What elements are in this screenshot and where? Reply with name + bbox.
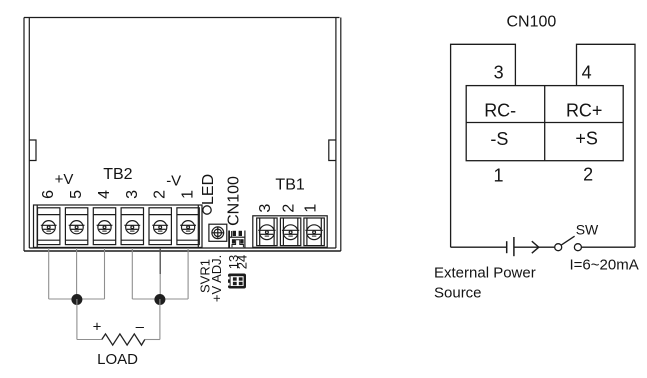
wire + drop to load	[76, 299, 78, 340]
svg-text:I=6~20mA: I=6~20mA	[570, 256, 639, 273]
wire from TB2 terminal 6	[48, 234, 50, 300]
terminal block TB1 body	[253, 216, 327, 248]
svg-text:-S: -S	[490, 129, 508, 149]
svg-text:TB2: TB2	[103, 166, 132, 183]
wire from TB2 terminal 2	[159, 234, 161, 300]
svg-text:RC+: RC+	[566, 100, 603, 120]
wire - drop to load	[159, 299, 161, 340]
svg-text:LED: LED	[200, 174, 217, 205]
svg-text:4: 4	[96, 190, 113, 199]
resistor LOAD	[102, 334, 145, 345]
svg-text:TB1: TB1	[275, 177, 304, 194]
svg-text:LOAD: LOAD	[97, 351, 138, 368]
connector CN100 side view	[229, 231, 245, 249]
right mounting tab	[329, 140, 336, 161]
svg-text:External Power: External Power	[434, 264, 536, 281]
svg-text:6: 6	[40, 190, 57, 199]
svg-text:+S: +S	[575, 128, 598, 148]
svg-text:5: 5	[68, 190, 85, 199]
svg-text:24: 24	[235, 255, 250, 269]
TB2 terminal 6 cell	[38, 208, 60, 245]
potentiometer SVR1	[209, 224, 227, 241]
LED indicator circle	[203, 206, 211, 214]
terminal block TB2 body	[34, 205, 203, 247]
external power source label	[434, 264, 536, 301]
wire battery to switch	[514, 246, 555, 248]
+V bus wire joining terminals 6,5,4	[49, 298, 105, 300]
svg-text:3: 3	[494, 62, 504, 82]
svg-text:RC-: RC-	[484, 100, 516, 120]
svg-text:CN100: CN100	[506, 13, 556, 30]
TB2 terminal 4 cell	[93, 208, 115, 245]
svg-text:+V ADJ.: +V ADJ.	[209, 255, 224, 302]
svg-text:3: 3	[257, 204, 274, 213]
TB2 terminal 3 cell	[121, 208, 143, 245]
svg-text:-V: -V	[166, 172, 181, 189]
junction node -V	[154, 294, 165, 305]
switch SW	[555, 236, 582, 251]
CN100 connector outline	[451, 44, 635, 247]
wire load right lead	[145, 339, 160, 341]
PSU case outline	[24, 18, 341, 252]
TB2 terminal 1 cell	[177, 208, 199, 245]
wire from TB2 terminal 2 upper segment	[159, 234, 161, 275]
wire bottom right	[582, 246, 636, 248]
CN100 mating connector icon	[228, 274, 246, 289]
wire from TB2 terminal 1	[187, 234, 189, 300]
svg-text:+: +	[93, 319, 102, 336]
current direction arrow	[532, 241, 539, 253]
left mounting tab	[29, 140, 36, 161]
wire from TB2 terminal 4	[104, 234, 106, 300]
TB2 terminal 2 cell	[149, 208, 171, 245]
svg-text:3: 3	[124, 190, 141, 199]
-V bus wire joining terminals 3,2,1	[132, 298, 188, 300]
svg-text:2: 2	[281, 204, 298, 213]
svg-text:1: 1	[180, 190, 197, 199]
svg-text:2: 2	[583, 164, 593, 184]
TB1 terminal 2 cell	[280, 218, 300, 246]
svg-text:1: 1	[303, 204, 320, 213]
wire bottom left	[451, 246, 507, 248]
battery cell	[507, 237, 514, 256]
svg-text:1: 1	[493, 166, 503, 186]
TB2 terminal 5 cell	[65, 208, 87, 245]
svg-text:+V: +V	[55, 171, 74, 188]
wire from TB2 terminal 3	[131, 234, 133, 300]
TB1 terminal 1 cell	[304, 218, 324, 246]
wire from TB2 terminal 5	[76, 234, 78, 300]
svg-text:CN100: CN100	[225, 176, 242, 226]
svg-text:4: 4	[582, 63, 592, 83]
svg-text:–: –	[136, 319, 145, 336]
svg-text:SW: SW	[576, 222, 599, 238]
svg-text:2: 2	[152, 190, 169, 199]
CN100 pin table	[466, 86, 623, 161]
junction node +V	[71, 294, 82, 305]
TB1 terminal 3 cell	[257, 218, 277, 246]
wire load left lead	[77, 339, 102, 341]
svg-text:Source: Source	[434, 285, 482, 302]
